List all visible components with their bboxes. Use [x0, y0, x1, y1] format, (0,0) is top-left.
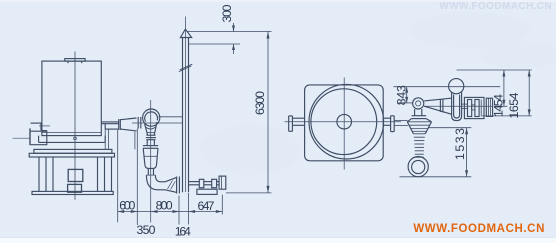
svg-text:843: 843 — [394, 85, 408, 105]
stand lower plate — [29, 153, 114, 157]
plan left nozzle — [289, 116, 305, 131]
fan scroll casing — [143, 109, 160, 126]
bottom dimension chain line — [118, 211, 223, 213]
plan vertical centerline — [343, 78, 345, 170]
dim 6300 line — [267, 32, 269, 193]
hose coil end — [408, 157, 428, 177]
fan casing duct (plan) — [452, 92, 462, 120]
top reference line (plan) — [394, 86, 501, 88]
stack tube — [183, 38, 189, 193]
sampling pump at stack base — [189, 176, 226, 194]
extension line B x137.3 — [136, 129, 138, 226]
tank body — [42, 61, 101, 136]
svg-text:600: 600 — [119, 199, 135, 213]
control box upper — [68, 169, 83, 181]
outlet pipe tank to fan — [101, 122, 118, 129]
svg-text:1454: 1454 — [491, 94, 505, 117]
left nozzle centerline — [13, 137, 30, 139]
fan elbow circle — [413, 98, 424, 109]
motor canister top flange — [143, 140, 158, 149]
base plate — [32, 191, 113, 194]
chain arrowheads — [118, 210, 223, 213]
extension line D x188.6 — [188, 193, 190, 225]
outer shell circle — [309, 84, 384, 159]
svg-text:800: 800 — [156, 199, 173, 213]
pipe break symbol — [179, 64, 193, 71]
dim 300 leader and arrows — [233, 23, 235, 54]
watermark bottom right — [413, 223, 545, 235]
stack inlet flange — [177, 177, 180, 194]
fan support legs — [105, 129, 135, 149]
svg-text:164: 164 — [175, 224, 191, 238]
tank bottom pan — [39, 136, 106, 143]
flexible hose pipe — [412, 109, 427, 119]
extension line C x179 — [178, 196, 180, 225]
hose ground line — [400, 176, 472, 178]
coupling halves — [468, 100, 472, 117]
fan inlet cone (plan) — [424, 98, 451, 114]
coupling frame — [464, 97, 484, 118]
svg-text:647: 647 — [198, 199, 215, 213]
plan square body — [305, 85, 384, 161]
svg-text:6300: 6300 — [253, 91, 267, 115]
inner shell circle — [311, 89, 377, 155]
pipe flange — [119, 119, 121, 130]
fan throat flange — [138, 117, 141, 129]
left nozzle upper bracket — [31, 123, 51, 131]
hose spiral — [413, 134, 425, 157]
svg-text:1654: 1654 — [507, 92, 521, 118]
motor canister body — [143, 148, 158, 168]
hose funnel — [407, 119, 431, 134]
fan outlet duct to stack — [159, 116, 183, 118]
stack centerline — [184, 17, 186, 193]
elbow expanding cone — [165, 178, 176, 193]
stand legs — [39, 157, 112, 191]
expanding cone to fan — [120, 118, 136, 131]
tank centerline — [74, 52, 76, 200]
ground line right of pump — [226, 192, 272, 194]
dim 1533 — [428, 128, 471, 177]
dim 843 — [397, 87, 413, 103]
svg-text:300: 300 — [220, 4, 234, 22]
svg-text:350: 350 — [137, 223, 156, 237]
fan scroll circle (plan) — [449, 79, 464, 94]
fan-motor centerline (plan) — [424, 105, 493, 107]
dim 1454 — [457, 70, 532, 106]
rain cap cone — [180, 29, 191, 37]
plan horizontal centerline — [285, 121, 402, 123]
dim 300 extension lines — [187, 31, 272, 33]
motor shaft — [462, 104, 468, 108]
stand top plate — [34, 149, 112, 153]
svg-text:1533: 1533 — [453, 128, 467, 160]
fan assembly centerline — [150, 100, 152, 223]
hub circle — [337, 114, 352, 129]
dim 1654 — [482, 70, 532, 116]
drain circle — [74, 137, 77, 140]
funnel bottom flange — [146, 135, 156, 140]
fan centerline horizontal to stack — [132, 122, 183, 124]
left nozzle flange — [30, 128, 47, 145]
control box lower — [68, 184, 82, 192]
plan right nozzle — [383, 116, 394, 132]
motor body (plan) — [486, 98, 492, 116]
watermark top right — [439, 1, 552, 12]
tank seam — [42, 132, 101, 134]
fan discharge funnel — [145, 122, 157, 135]
tank top cap — [65, 59, 85, 64]
extension line E x222.3 — [221, 195, 223, 215]
extension line A x117.7 — [117, 130, 119, 222]
elbow to stack — [146, 175, 165, 190]
link lines nozzle to hose — [394, 120, 408, 125]
canister neck — [148, 168, 153, 175]
